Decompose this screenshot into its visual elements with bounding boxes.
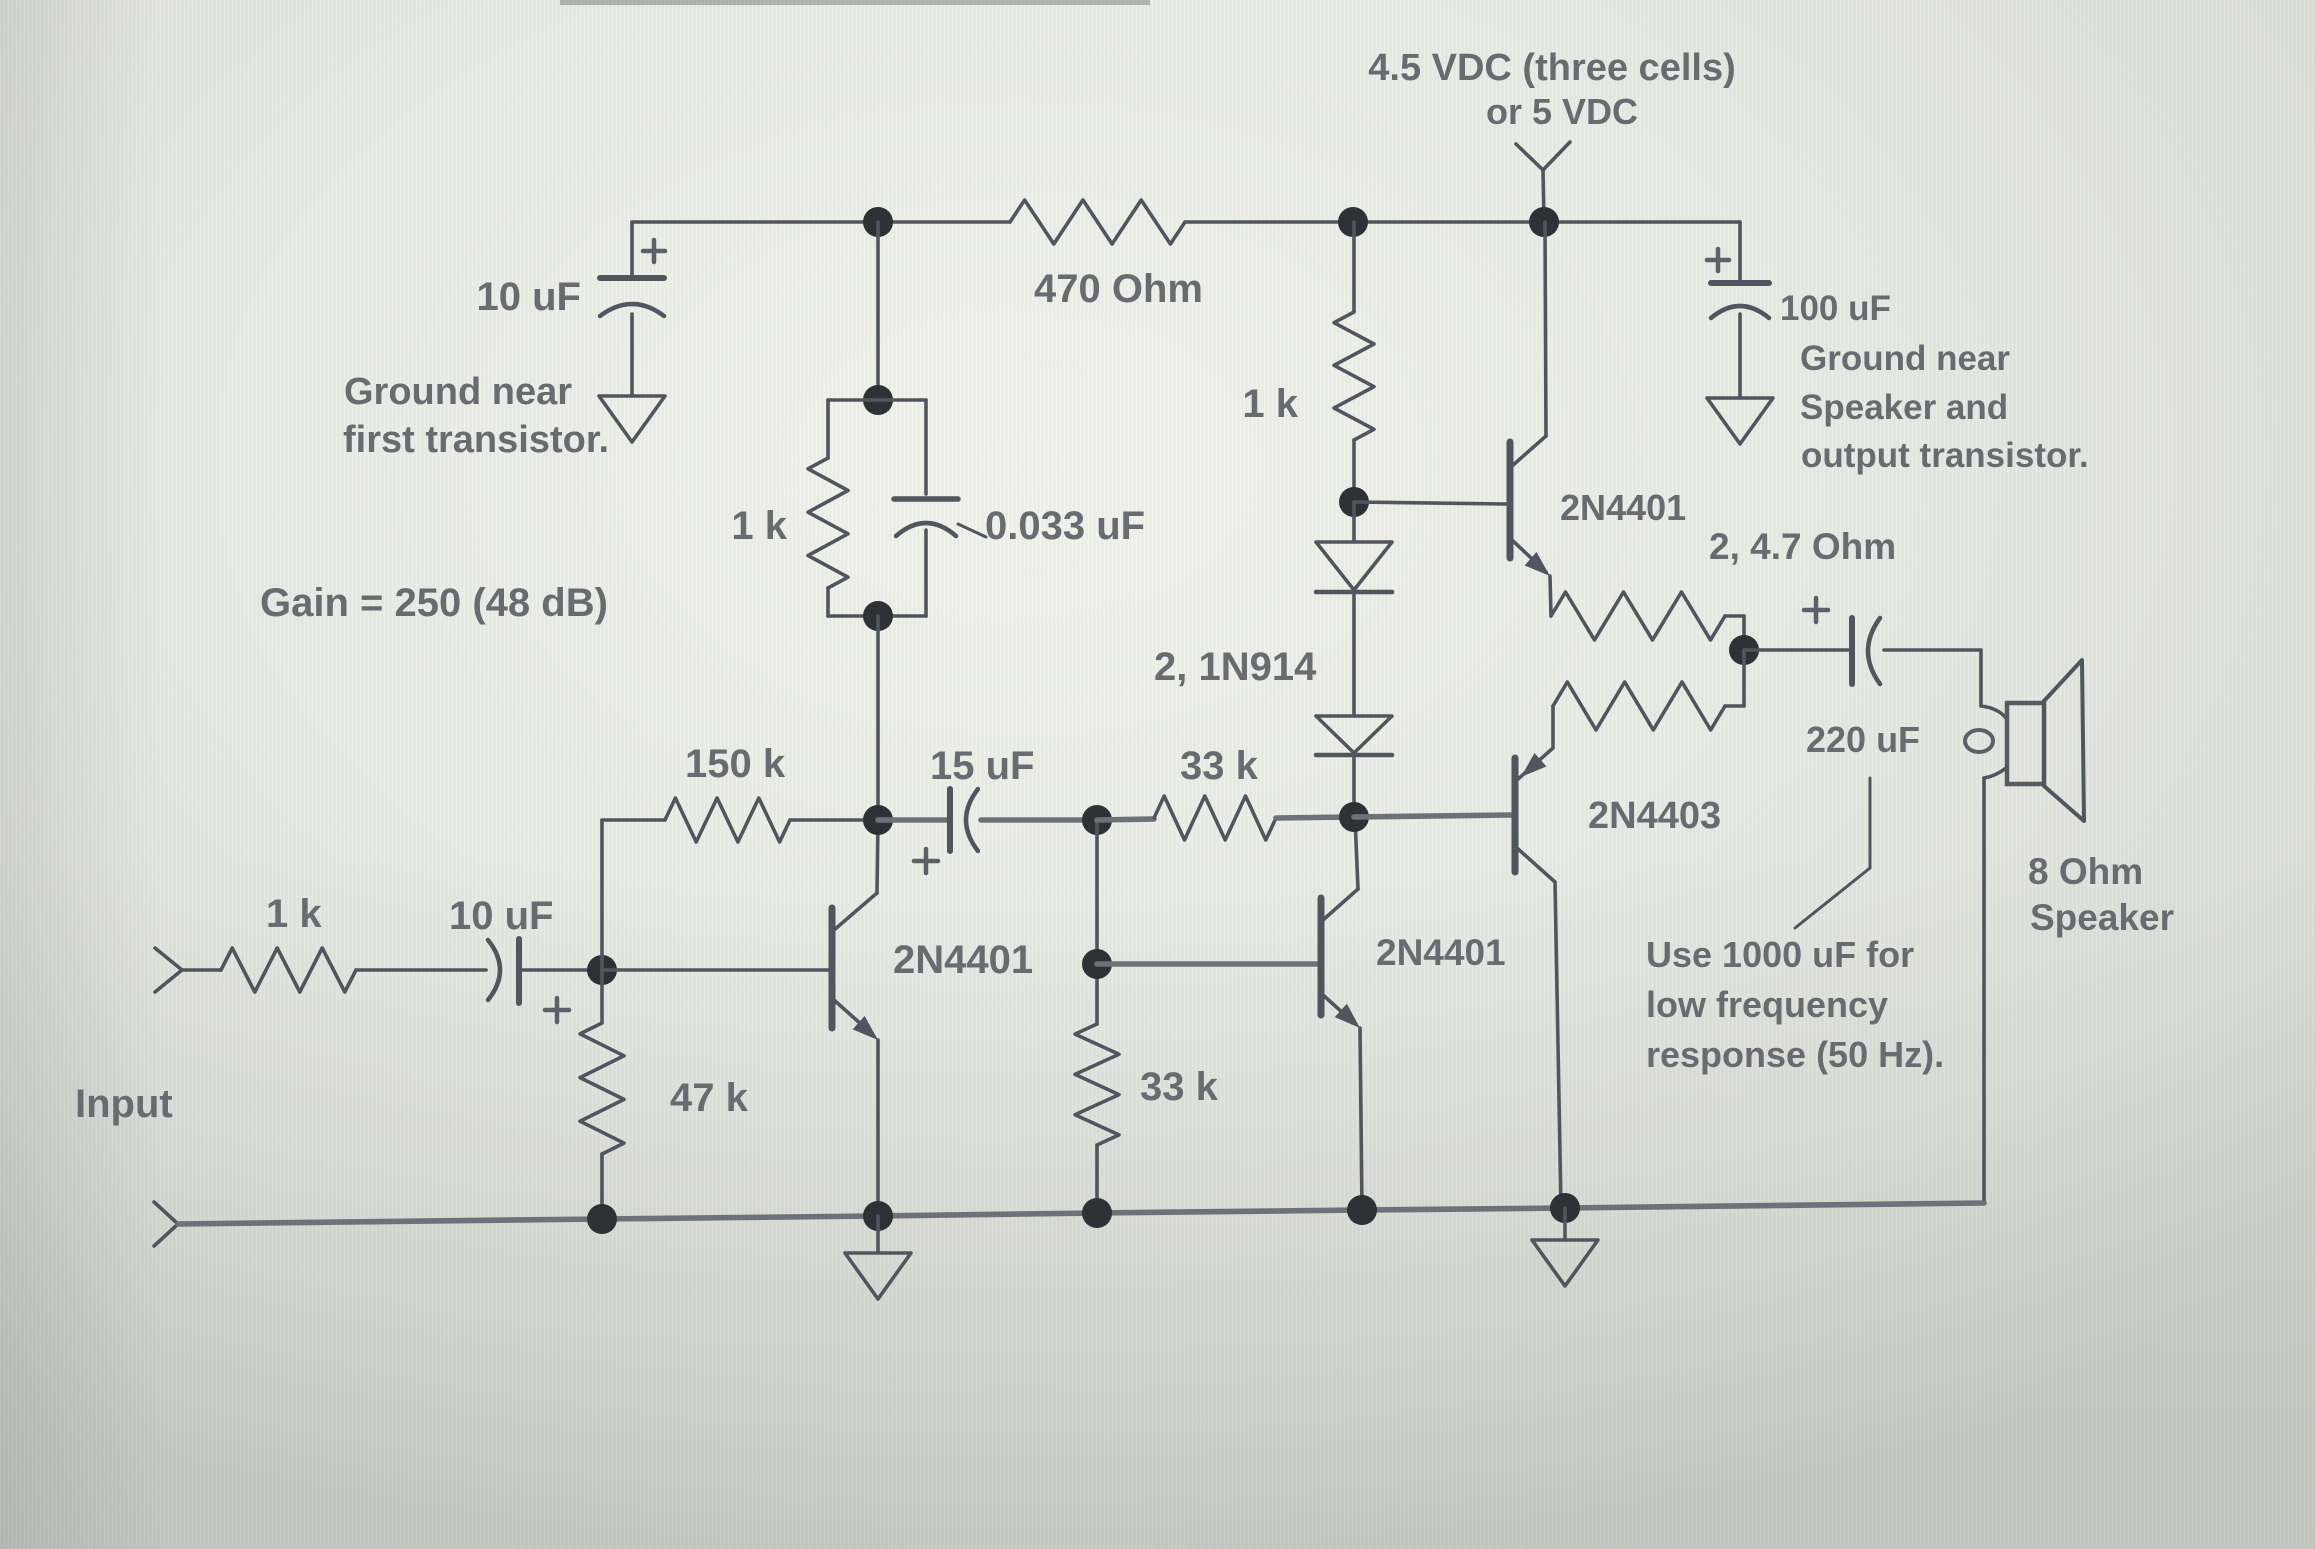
- svg-text:10 uF: 10 uF: [449, 894, 553, 938]
- wire speaker bottom return: [1984, 768, 2006, 778]
- wire bottom rail: [178, 1203, 1984, 1224]
- capacitor C1 10 uF input coupling: [488, 940, 500, 1000]
- svg-text:2, 1N914: 2, 1N914: [1154, 645, 1317, 689]
- transistor Q4 2N4403 output bottom: [1354, 815, 1511, 817]
- node top rail / first stage collector branch: [863, 207, 893, 237]
- svg-text:Gain = 250 (48 dB): Gain = 250 (48 dB): [260, 581, 608, 625]
- svg-text:2N4401: 2N4401: [1376, 932, 1506, 973]
- power terminal Y: [1543, 170, 1544, 222]
- wire RC bottom join: [828, 614, 926, 618]
- node top rail / power entry: [1529, 207, 1559, 237]
- svg-text:150 k: 150 k: [685, 742, 786, 786]
- capacitor C2 10 uF decoupling: [630, 222, 634, 276]
- resistor R4 150 k feedback: [600, 820, 604, 970]
- node output: [1729, 635, 1759, 665]
- svg-text:output transistor.: output transistor.: [1801, 436, 2089, 475]
- input terminal chevron bottom: [154, 1202, 178, 1246]
- node RC top: [863, 385, 893, 415]
- wire collector branch lower: [876, 616, 880, 820]
- svg-text:2N4403: 2N4403: [1588, 795, 1721, 837]
- node rail / Q2 emitter: [1347, 1195, 1377, 1225]
- svg-text:0.033 uF: 0.033 uF: [985, 504, 1145, 548]
- resistor R5 47 k: [600, 970, 604, 1023]
- transistor Q3 2N4401 output top: [1354, 502, 1506, 504]
- svg-text:470 Ohm: 470 Ohm: [1034, 267, 1203, 311]
- resistor R6 33 k interstage: [1097, 819, 1154, 820]
- svg-text:Use 1000 uF for: Use 1000 uF for: [1646, 934, 1914, 975]
- speaker terminal mark: [1965, 730, 1993, 752]
- svg-text:47 k: 47 k: [670, 1076, 749, 1120]
- svg-text:Ground near: Ground near: [1800, 339, 2010, 378]
- input terminal chevron top: [155, 948, 182, 992]
- wire diode interconnect: [1352, 592, 1356, 716]
- resistor R8 1 k bias: [1352, 222, 1356, 312]
- svg-text:1 k: 1 k: [1242, 382, 1298, 426]
- node rail / 47k: [587, 1204, 617, 1234]
- svg-text:1 k: 1 k: [266, 892, 322, 936]
- resistor R3 1 k collector load: [826, 400, 830, 458]
- resistor R1 1 k input: [182, 968, 221, 972]
- diode D1 1N914: [1352, 502, 1356, 542]
- svg-text:33 k: 33 k: [1140, 1065, 1219, 1109]
- wire top rail middle segment: [1185, 220, 1740, 224]
- node rail / Q1 emitter: [863, 1201, 893, 1231]
- svg-text:2N4401: 2N4401: [893, 938, 1033, 982]
- node rail / 33k: [1082, 1198, 1112, 1228]
- node first base: [587, 955, 617, 985]
- capacitor C6 220 uF output: [1744, 648, 1848, 652]
- ground near speaker: [1738, 314, 1742, 398]
- node collector / feedback / C4: [863, 805, 893, 835]
- ground output stage: [1563, 1208, 1567, 1240]
- resistor R9 4.7 Ohm top: [1551, 592, 1725, 640]
- resistor R7 33 k to ground: [1095, 820, 1099, 1024]
- svg-text:first transistor.: first transistor.: [343, 419, 609, 461]
- ground near first transistor: [630, 314, 634, 396]
- ground first stage: [876, 1216, 880, 1253]
- svg-text:220 uF: 220 uF: [1806, 719, 1920, 760]
- svg-text:8 Ohm: 8 Ohm: [2028, 851, 2143, 892]
- svg-text:Ground near: Ground near: [344, 371, 572, 413]
- svg-text:response (50 Hz).: response (50 Hz).: [1646, 1034, 1944, 1075]
- wire collector branch upper: [876, 222, 880, 400]
- transistor Q1 2N4401 first stage: [602, 968, 829, 972]
- svg-text:Speaker and: Speaker and: [1800, 388, 2008, 427]
- capacitor C5 100 uF supply bypass: [1738, 222, 1742, 280]
- diode D2 1N914: [1316, 716, 1392, 753]
- node diode bottom / Q4 base: [1339, 802, 1369, 832]
- emitter to R9: [1550, 576, 1551, 616]
- capacitor C4 15 uF interstage: [878, 817, 948, 823]
- svg-text:Speaker: Speaker: [2030, 897, 2174, 938]
- wire RC top split: [828, 398, 926, 402]
- node second base: [1082, 949, 1112, 979]
- resistor R10 4.7 Ohm bottom: [1742, 650, 1746, 706]
- svg-text:4.5 VDC (three cells): 4.5 VDC (three cells): [1368, 47, 1735, 89]
- transistor Q2 2N4401 second stage: [1097, 961, 1318, 967]
- wire top rail left segment: [632, 220, 1010, 224]
- svg-text:low frequency: low frequency: [1646, 984, 1888, 1025]
- svg-text:33 k: 33 k: [1180, 744, 1259, 788]
- speaker 8 Ohm: [2007, 703, 2044, 784]
- node top rail / bias chain: [1338, 207, 1368, 237]
- svg-text:10 uF: 10 uF: [477, 275, 581, 319]
- svg-text:Input: Input: [75, 1082, 173, 1126]
- svg-text:100 uF: 100 uF: [1780, 289, 1891, 328]
- wire cap to speaker: [1884, 648, 1981, 652]
- callout line to 220uF: [1869, 778, 1872, 868]
- node C4 / bias divider: [1082, 805, 1112, 835]
- svg-text:2N4401: 2N4401: [1560, 487, 1686, 528]
- node RC bottom: [863, 601, 893, 631]
- capacitor C3 0.033 uF: [924, 400, 928, 494]
- svg-text:2, 4.7 Ohm: 2, 4.7 Ohm: [1709, 526, 1896, 567]
- svg-text:or 5 VDC: or 5 VDC: [1486, 91, 1638, 132]
- svg-text:15 uF: 15 uF: [930, 744, 1034, 788]
- resistor R2 470 Ohm: [1010, 200, 1185, 244]
- node bias / Q3 base: [1339, 487, 1369, 517]
- svg-text:1 k: 1 k: [731, 504, 787, 548]
- node rail / Q4 collector: [1550, 1193, 1580, 1223]
